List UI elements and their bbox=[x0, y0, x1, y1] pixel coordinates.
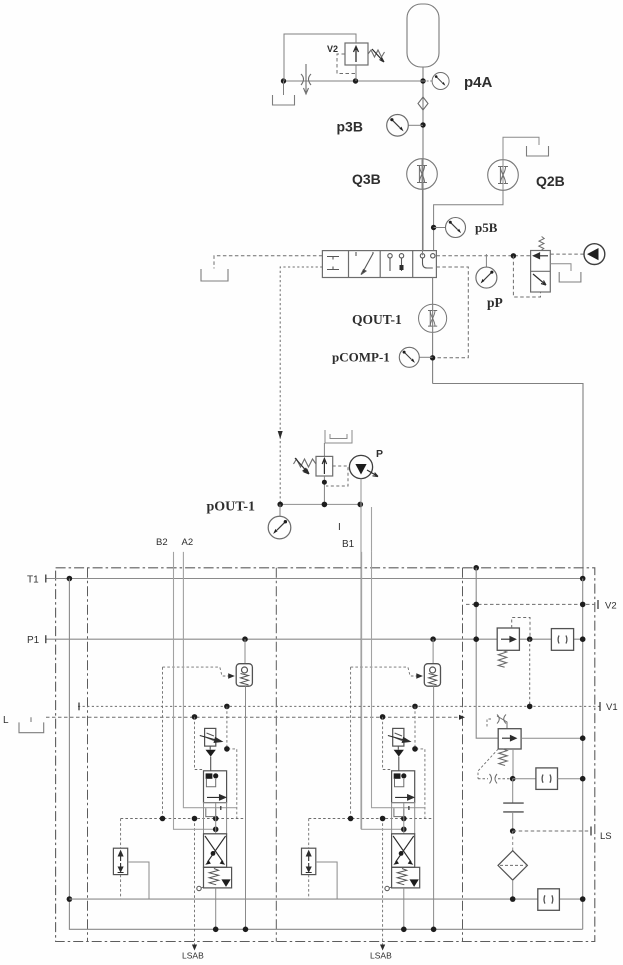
node V1 pilot bbox=[224, 704, 230, 710]
svg-text:V1: V1 bbox=[606, 702, 618, 713]
compensator pilot dashes bbox=[120, 819, 122, 849]
node bus P1 bbox=[473, 636, 479, 642]
spool stem bbox=[215, 803, 217, 834]
cell4 ports bbox=[420, 254, 435, 268]
V1 pilot line long bbox=[78, 705, 601, 707]
variable orifice arrow bbox=[200, 736, 222, 743]
svg-text:p5B: p5B bbox=[475, 220, 498, 235]
node T1 left bbox=[67, 576, 73, 582]
node V2 bus bbox=[580, 602, 586, 608]
wire spool bottom bbox=[215, 888, 217, 929]
relief valve V2 arrow bbox=[354, 47, 359, 63]
svg-text:pCOMP-1: pCOMP-1 bbox=[332, 350, 390, 365]
node dampener bbox=[510, 776, 516, 782]
pump top bbox=[584, 244, 605, 265]
orifice box V2 marks bbox=[558, 636, 567, 644]
outer frame bbox=[56, 568, 595, 942]
wire accumulator to valve block bbox=[422, 67, 424, 251]
pump P bbox=[349, 455, 372, 478]
unloading valve bottom cell arrow bbox=[533, 274, 546, 285]
wire relief down bbox=[323, 476, 325, 504]
gauge pCOMP-1 bbox=[399, 347, 419, 367]
svg-text:pP: pP bbox=[487, 295, 503, 310]
wire LS to filter bbox=[512, 831, 514, 851]
wire QOUT to right bus bbox=[433, 384, 583, 579]
wire Q2B up to tank bbox=[503, 137, 539, 159]
wire to gauge p4A bbox=[423, 80, 433, 82]
node orifice pilot bbox=[224, 746, 230, 752]
check pilot arrow bbox=[228, 673, 235, 679]
relief valve spring bbox=[294, 459, 317, 467]
svg-text:T1: T1 bbox=[27, 575, 39, 586]
svg-text:Q2B: Q2B bbox=[536, 173, 565, 189]
pilot drop to V1 line bbox=[529, 639, 531, 706]
node pOUT left bbox=[277, 502, 283, 508]
tank right of valve bbox=[559, 272, 581, 282]
flow meter QOUT-1 bbox=[419, 304, 447, 332]
node pCOMP bbox=[430, 355, 435, 360]
pump top triangle bbox=[587, 248, 599, 260]
unloading valve spring bbox=[539, 237, 544, 251]
node LS a bbox=[160, 816, 166, 822]
relief pilot loop bbox=[326, 466, 348, 486]
wire gauge pOUT stub bbox=[279, 504, 281, 516]
flow meter Q2B bbox=[488, 160, 519, 191]
spring box spring bbox=[209, 869, 218, 885]
check valve ball bbox=[242, 667, 248, 673]
valve block body bbox=[322, 251, 436, 278]
svg-text:I: I bbox=[338, 522, 341, 533]
orifice box V2 bbox=[551, 629, 573, 651]
spool middle notch bbox=[206, 808, 216, 816]
svg-text:LSAB: LSAB bbox=[182, 951, 204, 961]
wire check valve down bbox=[245, 686, 247, 929]
check valve body bbox=[236, 664, 252, 687]
node bottom right bbox=[580, 896, 586, 902]
node T1 drop bottom bbox=[67, 896, 73, 902]
gauge p5B bbox=[446, 218, 466, 238]
node LS b bbox=[192, 816, 198, 822]
accumulator bbox=[407, 4, 439, 67]
node pOUT mid bbox=[322, 502, 328, 508]
V2 port line bbox=[466, 603, 595, 605]
throttle valve bbox=[301, 64, 311, 94]
spool X arrows bbox=[205, 836, 226, 862]
relief V1 right wire bbox=[521, 737, 583, 739]
node P1 right bbox=[580, 636, 586, 642]
LS dashes bbox=[513, 830, 591, 832]
svg-text:pOUT-1: pOUT-1 bbox=[207, 500, 256, 515]
relief V2 pilot loop bbox=[512, 618, 530, 638]
work line A1 upper stub bbox=[371, 507, 373, 552]
T1 line bbox=[46, 578, 583, 580]
node below relief bbox=[322, 480, 327, 485]
compensator bottom dashes bbox=[120, 875, 122, 900]
svg-text:LSAB: LSAB bbox=[370, 951, 392, 961]
svg-text:B1: B1 bbox=[342, 539, 355, 550]
svg-text:L: L bbox=[3, 715, 9, 726]
node T1 right bbox=[580, 576, 586, 582]
plug bars bbox=[503, 803, 524, 812]
spring box triangle bbox=[221, 879, 230, 887]
compensator arrows bbox=[118, 851, 122, 861]
wire valve to tank bbox=[550, 264, 571, 271]
wire valve bottom bbox=[355, 65, 357, 81]
check pilot dashes bbox=[163, 667, 230, 676]
throttle above V1 relief bbox=[497, 715, 507, 729]
relief V2 pilot arrow bbox=[501, 637, 516, 642]
wire drain bbox=[201, 887, 204, 888]
wire main line y81 bbox=[284, 80, 424, 82]
tank Q2B bbox=[527, 146, 549, 156]
V2 port tick bbox=[597, 600, 599, 609]
flow arrow on pilot line bbox=[278, 431, 283, 439]
pilot line block to pOUT bbox=[280, 267, 322, 504]
cell2 spool arrow bbox=[356, 252, 373, 275]
node p5B bbox=[431, 225, 436, 230]
unloading valve top cell arrow bbox=[534, 253, 549, 259]
svg-text:Q3B: Q3B bbox=[352, 171, 381, 187]
gauge pP stub bbox=[485, 254, 487, 267]
wire to gauge pCOMP-1 bbox=[419, 356, 432, 358]
node pOUT right bbox=[358, 502, 364, 508]
orifice box4 marks bbox=[544, 895, 553, 903]
unloading valve body bbox=[531, 251, 551, 293]
node spool upper bbox=[213, 773, 218, 778]
wire down to plug bbox=[512, 779, 514, 803]
node mid bbox=[353, 78, 358, 83]
orifice box3 bbox=[536, 768, 558, 790]
flow meter Q3B bbox=[407, 159, 438, 190]
svg-text:V2: V2 bbox=[605, 601, 617, 612]
wire pOUT junction line bbox=[280, 503, 361, 505]
orifice box4 bbox=[538, 889, 560, 911]
wire tank to relief bbox=[323, 443, 325, 456]
node spool X bbox=[211, 851, 216, 856]
spool lower box bbox=[204, 834, 227, 868]
separator pilot bbox=[462, 568, 464, 942]
node V1 relief right bbox=[580, 735, 586, 741]
gauge p3B bbox=[387, 115, 409, 137]
wire filter down bbox=[512, 880, 514, 899]
spool middle box bbox=[204, 803, 227, 834]
relief V2 pilot spring bbox=[498, 650, 506, 667]
tank left of block bbox=[201, 269, 228, 281]
node top border bus bbox=[473, 565, 479, 571]
node LSAB top bbox=[192, 714, 198, 720]
LSAB arrow bbox=[192, 945, 197, 951]
pilot drop dashes bbox=[162, 667, 164, 818]
svg-text:P1: P1 bbox=[27, 635, 40, 646]
node P1 relief out bbox=[527, 636, 533, 642]
orifice diamond bbox=[418, 97, 428, 110]
relief valve main body bbox=[316, 456, 333, 476]
T1 drop line bbox=[69, 579, 582, 930]
relief adjust arrow bbox=[295, 458, 309, 474]
wire to gauge p3B bbox=[409, 124, 424, 126]
pilot line V2 valve bbox=[337, 54, 355, 74]
bottom return line bbox=[69, 898, 582, 900]
relief valve V1 pilot body bbox=[498, 729, 521, 749]
LS port tick bbox=[590, 827, 592, 836]
gauge pOUT-1 bbox=[268, 516, 291, 539]
spool arrow right bbox=[207, 795, 226, 800]
spool pilot drop dashes bbox=[195, 717, 204, 770]
wire to tank bbox=[283, 81, 285, 95]
supply dashed line right of block bbox=[436, 255, 530, 257]
relief valve V2 body bbox=[345, 43, 368, 65]
L tank bbox=[19, 717, 44, 732]
node supply bbox=[511, 253, 516, 258]
relief V1 pilot arrow bbox=[502, 736, 516, 741]
node left bbox=[281, 78, 286, 83]
variable orifice rect bbox=[205, 728, 216, 746]
node spool B bbox=[213, 827, 219, 833]
compensator out wire bbox=[128, 862, 149, 899]
right bus bbox=[582, 579, 584, 930]
node at p4A bbox=[420, 78, 425, 83]
check poppet triangle bbox=[206, 750, 216, 757]
relief valve V2 spring bbox=[368, 50, 385, 57]
cell3 ports bbox=[388, 254, 404, 271]
wire P1 to check valve bbox=[244, 639, 246, 664]
wire Q2B down bbox=[434, 190, 503, 250]
node spool bottom bbox=[213, 927, 219, 933]
pilot bus vertical bbox=[476, 568, 498, 738]
node bus V2 bbox=[473, 602, 479, 608]
P1 line bbox=[46, 638, 583, 640]
pilot dashes at throttle bbox=[487, 719, 491, 728]
filter bbox=[498, 851, 527, 880]
svg-text:LS: LS bbox=[600, 831, 612, 842]
gauge pP bbox=[476, 267, 497, 288]
node V1 mid bbox=[527, 704, 533, 710]
wire throttle2 bbox=[478, 778, 512, 780]
throttle2 bbox=[490, 774, 498, 783]
relief V1 pilot spring bbox=[499, 749, 507, 765]
spool upper box bbox=[204, 771, 227, 803]
wire orifice stem bbox=[209, 746, 212, 771]
node LS c bbox=[213, 816, 219, 822]
separator mid bbox=[275, 568, 277, 942]
cell1 blocked ports bbox=[327, 257, 339, 270]
variable orifice marks bbox=[207, 733, 214, 741]
spool upper plug bbox=[206, 773, 213, 778]
spring box bbox=[204, 867, 232, 888]
spool middle tick bbox=[220, 806, 222, 810]
node P1 feed bbox=[242, 636, 248, 642]
check valve spring bbox=[241, 674, 249, 685]
wire to orifice box3 bbox=[513, 778, 536, 780]
relief valve V2 adjust arrow bbox=[372, 49, 384, 62]
work line A2 bbox=[183, 552, 236, 808]
tank top-left bbox=[273, 95, 295, 105]
L line bbox=[46, 716, 465, 718]
node orifice right bbox=[580, 776, 586, 782]
LSAB drop dashes bbox=[194, 819, 196, 948]
pump P triangle bbox=[355, 464, 366, 475]
svg-text:QOUT-1: QOUT-1 bbox=[352, 312, 402, 327]
gauge p4A bbox=[432, 73, 449, 90]
LS section dashes bbox=[121, 818, 246, 820]
wire plug to LS bbox=[512, 812, 514, 831]
wire to gauge p5B bbox=[434, 227, 446, 229]
wire valve to pump bbox=[550, 253, 584, 255]
orifice box3 marks bbox=[542, 775, 551, 783]
separator left bbox=[87, 568, 89, 942]
svg-text:p4A: p4A bbox=[464, 74, 493, 91]
compensator body bbox=[113, 848, 127, 874]
V1 pilot drop bbox=[227, 706, 237, 818]
svg-text:B2: B2 bbox=[156, 537, 168, 548]
svg-text:A2: A2 bbox=[182, 537, 194, 548]
wire block down to QOUT bbox=[432, 278, 434, 384]
pilot dashed right of block bbox=[434, 267, 468, 358]
tank line left of block bbox=[214, 256, 322, 269]
filter mesh bbox=[500, 864, 525, 866]
svg-text:V2: V2 bbox=[327, 44, 338, 54]
wire V1 relief bottom bbox=[512, 749, 514, 779]
wire valve top loop bbox=[284, 34, 356, 81]
spool notch bbox=[206, 779, 215, 787]
node LS bbox=[510, 828, 516, 834]
wire pump down / B1 line bbox=[360, 479, 362, 830]
pilot diag dashes bbox=[478, 749, 498, 779]
node filter bottom bbox=[510, 896, 516, 902]
L arrow end bbox=[459, 715, 465, 720]
work line B2 bbox=[174, 552, 216, 829]
node p3B bbox=[420, 122, 425, 127]
tank above relief bbox=[325, 430, 352, 443]
V1 port tick bbox=[599, 702, 601, 711]
relief valve main arrow bbox=[322, 459, 326, 475]
wire orifice box3 right bbox=[558, 778, 583, 780]
node section bottom right bbox=[243, 927, 249, 933]
pilot loop under valve bbox=[513, 256, 540, 297]
relief valve V2 pilot body bbox=[497, 628, 519, 650]
wire Q3B into block bbox=[422, 189, 424, 255]
svg-text:P: P bbox=[376, 448, 383, 460]
drain circle bbox=[197, 886, 201, 890]
pump P drive arrow bbox=[367, 470, 378, 477]
svg-text:p3B: p3B bbox=[337, 119, 363, 135]
